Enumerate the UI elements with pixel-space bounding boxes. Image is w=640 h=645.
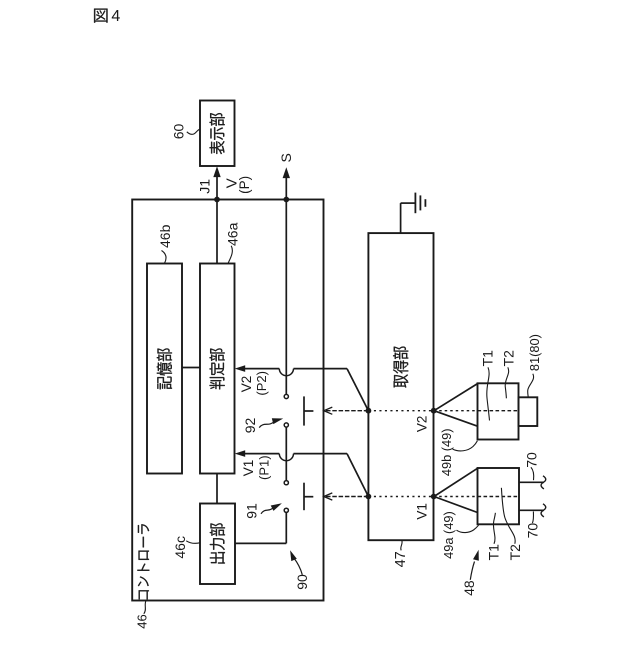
svg-text:70: 70 — [525, 523, 541, 539]
svg-text:48: 48 — [461, 580, 477, 596]
svg-text:91: 91 — [244, 503, 260, 519]
leader for 46 — [144, 601, 146, 614]
V1 wire with arrow into 判定部 and hop — [235, 450, 246, 457]
slant wire V1 to acquisition edge — [347, 454, 368, 497]
ground symbol — [414, 193, 416, 214]
svg-text:81(80): 81(80) — [527, 334, 542, 371]
svg-text:49b (49): 49b (49) — [439, 428, 454, 476]
leader for 46a — [228, 246, 232, 263]
leader for 46b — [162, 251, 167, 264]
svg-text:(P): (P) — [237, 176, 252, 194]
svg-text:V2: V2 — [239, 376, 254, 393]
controller box 46 コントローラ — [132, 200, 323, 601]
svg-text:70: 70 — [523, 452, 539, 468]
slant wire V2 to acquisition edge — [347, 369, 368, 411]
node dots V1 row — [366, 494, 372, 500]
sensor box 49a — [478, 468, 520, 524]
switch 91 bar — [303, 483, 305, 511]
terminal box 81 (80) — [519, 397, 538, 426]
svg-text:47: 47 — [393, 551, 409, 567]
ground wire — [400, 203, 402, 233]
svg-text:90: 90 — [294, 574, 310, 590]
break squiggle lower — [541, 504, 546, 517]
svg-text:92: 92 — [242, 418, 258, 434]
horn lines to sensor 49b — [434, 384, 478, 411]
switch 91 contacts — [284, 481, 288, 485]
leader for 46c — [186, 541, 200, 544]
dashed sense line V1 row — [326, 496, 368, 498]
switch 92 contacts — [284, 394, 288, 398]
svg-text:T2: T2 — [501, 350, 517, 367]
svg-text:J1: J1 — [197, 179, 213, 194]
connector 記憶部-判定部 — [182, 367, 200, 369]
horn lines to sensor 49a — [434, 468, 478, 496]
svg-text:T1: T1 — [485, 544, 501, 561]
svg-text:T2: T2 — [507, 544, 523, 561]
svg-text:49a (49): 49a (49) — [441, 511, 456, 559]
svg-text:V1: V1 — [415, 503, 430, 520]
leader for 47 — [401, 540, 402, 550]
leader 49b — [453, 441, 478, 451]
storage box 記憶部 (46b) — [147, 264, 182, 474]
acquisition box 取得部 (47) — [368, 233, 433, 540]
svg-text:4: 4 — [111, 8, 120, 25]
svg-text:46a: 46a — [225, 222, 241, 246]
break squiggle upper — [541, 476, 546, 489]
display box 表示部 (60) — [200, 101, 235, 167]
svg-text:T1: T1 — [479, 350, 495, 367]
wire 判定部 to 出力部 — [216, 474, 218, 504]
node dots V2 row — [366, 408, 372, 414]
svg-text:V1: V1 — [241, 460, 256, 477]
leader 49a — [457, 525, 479, 532]
wire: junction J1 down to 判定部 — [216, 200, 218, 264]
node on controller top edge (J1) — [214, 197, 220, 203]
node on controller top edge (S) — [283, 197, 289, 203]
svg-text:46c: 46c — [172, 536, 188, 559]
svg-text:V2: V2 — [415, 416, 430, 433]
svg-text:60: 60 — [170, 124, 186, 140]
decision box 判定部 (46a) — [200, 264, 235, 474]
sensor box 49b — [478, 383, 519, 439]
switch 92 bar — [303, 396, 305, 425]
leader for 60 — [187, 129, 200, 134]
svg-text:(P1): (P1) — [257, 455, 272, 480]
figure label 図4 — [94, 9, 107, 23]
S sense line vertical — [285, 200, 287, 395]
leader for 81(80) — [528, 374, 534, 397]
wire J1/V: controller to display with arrow — [216, 177, 218, 200]
S output arrow — [285, 177, 287, 200]
svg-text:46b: 46b — [157, 224, 173, 248]
wires to 70 terminals — [519, 481, 544, 483]
svg-text:S: S — [278, 153, 294, 162]
V2 wire with arrow into 判定部 and hop — [235, 365, 246, 372]
svg-text:(P2): (P2) — [254, 371, 269, 396]
output box 出力部 (46c) — [200, 504, 235, 585]
svg-text:46: 46 — [135, 614, 150, 628]
dashed sense line V2 row — [326, 410, 368, 412]
leader T2 — [505, 367, 508, 398]
leader T1 — [487, 367, 490, 420]
